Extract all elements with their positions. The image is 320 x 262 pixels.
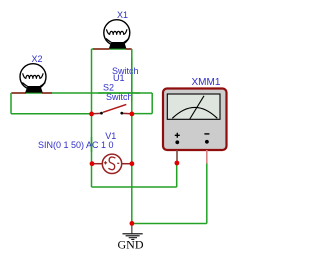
wire: right vertical x=131.8 from X1 down to ground junction (131, 49, 133, 224)
lamp X2 (12, 64, 52, 93)
wire overlay: vertical x=91.5 over SIN label (91, 137, 93, 152)
wire: bottom-left horizontal y=186.5 (92, 186, 177, 188)
wire: right stub horizontal to switch (132, 113, 152, 115)
wire overlay: vertical x=131.8 over switch labels (131, 58, 133, 102)
wire: vertical up to multimeter minus terminal (206, 163, 208, 224)
ground (123, 224, 143, 240)
svg-text:GND: GND (118, 237, 144, 251)
junction dot ground (130, 221, 135, 226)
switch S2 (92, 104, 132, 114)
multimeter XMM1 (163, 89, 227, 151)
svg-text:X2: X2 (32, 54, 43, 64)
lamp X1 (93, 20, 131, 49)
wire: vertical up to multimeter plus terminal (176, 162, 178, 187)
wire: ground horizontal y=223.5 (132, 223, 207, 225)
source V1 (92, 154, 132, 173)
junction dot switch left (89, 112, 94, 117)
wire: X2 horizontal y=93 (11, 92, 152, 94)
multimeter pin + (176, 150, 178, 161)
junction dot V1 left (90, 161, 95, 166)
svg-text:SIN(0 1 50) AC 1 0: SIN(0 1 50) AC 1 0 (38, 140, 114, 150)
wire: right stub vertical x=152.2 (151, 93, 153, 114)
wire: left loop bottom horizontal y=113.7 (11, 113, 92, 115)
multimeter pin - (206, 150, 208, 164)
junction dot V1 right (130, 161, 135, 166)
svg-text:X1: X1 (117, 10, 128, 20)
wire: left vertical x=91.5 from X1 down to bottom loop (91, 49, 93, 187)
wire: X1 bottom horizontal (92, 48, 133, 50)
svg-text:S2: S2 (103, 83, 114, 93)
svg-text:U1: U1 (113, 73, 125, 83)
svg-text:XMM1: XMM1 (192, 77, 221, 88)
junction dot multimeter + (175, 161, 180, 166)
wire overlay: X2 horizontal over S2/Switch labels (98, 92, 140, 94)
wire: left loop vertical x=11 (10, 93, 12, 114)
junction dot switch right (130, 112, 135, 117)
